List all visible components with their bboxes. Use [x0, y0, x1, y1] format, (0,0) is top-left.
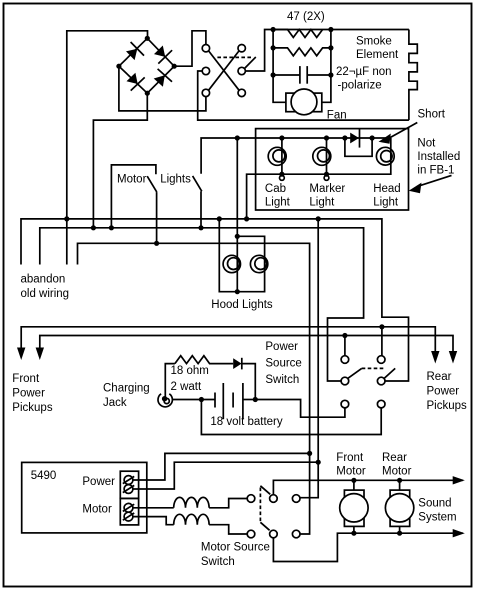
smoke unit left rail	[273, 30, 286, 103]
S3 lever bottom	[260, 522, 269, 530]
wire S1 left-middle to smoke unit bottom rail	[198, 71, 409, 120]
svg-text:Power: Power	[82, 476, 115, 488]
rear pickup arrow 2	[449, 351, 457, 364]
wire jack top to resistor	[165, 364, 175, 397]
Not-installed callout arrow	[417, 175, 452, 186]
svg-text:Light: Light	[309, 196, 335, 208]
bus1 common return (abandon stub, across, down to power switch right-middle)	[21, 219, 409, 381]
resistor R3 18 ohm	[175, 356, 233, 364]
wire 5490 motor2 to choke L2	[133, 517, 174, 525]
diode BR1-BR (points to right node)	[154, 69, 172, 87]
motor source switch S3 contacts	[247, 495, 255, 503]
node bridge right	[172, 64, 177, 69]
capacitor C1 plates	[299, 66, 301, 84]
svg-text:18 ohm: 18 ohm	[171, 365, 209, 377]
svg-text:Front: Front	[336, 452, 364, 464]
bus4 motor feed (abandon stub, across, down to 5490 junction and motor switch)	[78, 243, 310, 534]
svg-text:Light: Light	[373, 196, 399, 208]
svg-text:Power: Power	[12, 388, 45, 400]
light board box	[256, 129, 409, 210]
battery B1 plate short 1	[214, 393, 216, 408]
smoke element heater (notched edge)	[409, 30, 417, 121]
svg-text:in FB-1: in FB-1	[417, 165, 454, 177]
lamp return bus down to bus1	[247, 138, 391, 219]
svg-text:Rear: Rear	[382, 452, 407, 464]
wire S2 right-bottom to battery negative side	[201, 400, 381, 435]
wire bus1 vertical down to motor switch right-top	[300, 219, 318, 498]
capacitor C1 leads	[273, 74, 300, 76]
short bypass loop around D1	[345, 138, 372, 156]
fan M1 rotor	[291, 89, 317, 115]
terminal block power	[120, 471, 138, 498]
svg-text:Sound: Sound	[418, 498, 451, 510]
svg-text:Rear: Rear	[427, 371, 452, 383]
resistor R1 47 ohm	[273, 30, 323, 38]
wire choke L1 to motor switch left-top	[209, 499, 247, 508]
diode D1 triangle	[350, 133, 359, 144]
S2 dashed link	[362, 367, 384, 369]
5490 unit box	[22, 462, 147, 533]
diode BR1-TR (points to right node)	[154, 46, 172, 64]
wire 5490 power2 to junction	[133, 462, 318, 489]
battery B1 plate long 2	[242, 383, 244, 419]
svg-text:Motor: Motor	[336, 466, 366, 478]
svg-text:Lights: Lights	[160, 173, 191, 185]
junction dots hood lamps	[235, 234, 240, 239]
bridge rectifier BR1 diamond	[119, 38, 174, 93]
wire S1 right-middle to smoke unit top rail	[245, 30, 409, 72]
wire bridge left node to DPDT S1 lower-left contact	[119, 66, 206, 111]
Motor switch blade	[147, 176, 157, 192]
diode D3 triangle	[233, 358, 241, 369]
long wire lamp-bus to hood lamps top	[236, 138, 238, 236]
wire choke L2 to motor switch left-bottom	[209, 525, 247, 534]
node bridge bottom	[145, 91, 150, 96]
wire 5490 power1 to junction	[133, 453, 310, 480]
Motor knife switch SW-M bracket	[111, 165, 155, 228]
svg-text:Front: Front	[12, 373, 40, 385]
svg-text:Head: Head	[373, 183, 401, 195]
svg-text:Power: Power	[427, 386, 460, 398]
svg-text:Motor Source: Motor Source	[201, 541, 270, 553]
Short callout arrow	[388, 123, 417, 139]
svg-text:18 volt battery: 18 volt battery	[210, 416, 282, 428]
terminal block motor	[120, 498, 138, 525]
diode D3 bar	[241, 358, 243, 370]
front pickup arrow 2	[36, 348, 44, 361]
cab lamp DS1	[268, 138, 286, 180]
svg-text:Motor: Motor	[117, 173, 147, 185]
svg-text:System: System	[418, 512, 456, 524]
wire battery to S2 jog	[243, 399, 255, 401]
svg-text:abandon: abandon	[21, 273, 66, 285]
junction dots on buses	[64, 216, 69, 221]
battery B1 plate long 1	[222, 383, 224, 419]
pickup wire W-P2 with corners to arrows	[40, 336, 453, 352]
reversing switch S1 contacts	[202, 45, 209, 52]
head lamp DS3	[376, 147, 394, 165]
bus2 hot feed (abandon stub, across, jog down to power switch left-middle)	[40, 228, 364, 381]
svg-text:Element: Element	[356, 49, 399, 61]
junction dot power2	[316, 460, 321, 465]
svg-text:Motor: Motor	[82, 503, 112, 515]
node bridge top	[145, 36, 150, 41]
charging jack J1 body	[158, 394, 172, 407]
wire bridge bottom node down-left to bus2	[93, 93, 147, 228]
front motor M2	[340, 480, 368, 533]
junction dots motor rails	[351, 478, 356, 483]
svg-text:22¬µF non: 22¬µF non	[336, 66, 392, 78]
choke L1	[174, 497, 209, 507]
svg-text:Switch: Switch	[201, 556, 235, 568]
svg-text:Charging: Charging	[103, 382, 150, 394]
svg-text:Power: Power	[265, 341, 298, 353]
hood lamp DS4	[223, 236, 240, 291]
diode D1 bar	[359, 129, 361, 147]
wire 5490 motor1 to choke L1	[133, 507, 174, 509]
battery B1 plate short 2	[232, 393, 234, 408]
choke L2	[174, 514, 209, 524]
power source switch S2 contacts	[341, 356, 349, 364]
wire diode to battery output	[242, 364, 256, 400]
charging jack J1 ring	[164, 398, 169, 403]
rear pickup arrow 1	[431, 351, 439, 364]
svg-text:-polarize: -polarize	[338, 80, 382, 92]
S1 crossed wiring X	[209, 51, 239, 90]
wire S2 left-bottom to battery positive	[255, 400, 345, 418]
marker lamp DS2	[313, 138, 331, 180]
svg-text:Pickups: Pickups	[12, 402, 53, 414]
diode BR1-BL (points to bottom node)	[127, 73, 145, 91]
svg-text:Marker: Marker	[309, 183, 345, 195]
smoke unit right rail	[322, 30, 331, 103]
junction dot battery left	[199, 397, 204, 402]
junction dot battery right	[253, 397, 258, 402]
node bridge left	[116, 64, 121, 69]
wire pickup1 to power switch right-top	[381, 327, 383, 356]
hood lights frame wire	[219, 219, 264, 292]
svg-text:Not: Not	[417, 138, 436, 150]
svg-text:Smoke: Smoke	[356, 36, 392, 48]
svg-text:Source: Source	[265, 358, 301, 370]
svg-text:Short: Short	[418, 109, 446, 121]
S1 lever	[245, 57, 256, 68]
Lights switch blade	[193, 176, 202, 191]
svg-text:Jack: Jack	[103, 397, 127, 409]
S2 lever left	[348, 368, 362, 378]
svg-text:Pickups: Pickups	[427, 400, 468, 412]
fan M1 frame	[286, 93, 322, 112]
wire pickup2 to power switch left-top	[344, 336, 346, 356]
hood lamp DS5	[250, 255, 267, 272]
pickup wire W-P1 with corners to arrows	[21, 327, 435, 352]
wire S3 middle-bottom to motors bottom rail	[273, 533, 463, 561]
junction dot power1	[307, 451, 312, 456]
svg-text:47 (2X): 47 (2X)	[287, 11, 325, 23]
Motor switch wire down to bus4	[156, 192, 158, 243]
junction dots lamp bus	[235, 135, 240, 140]
svg-text:Switch: Switch	[265, 374, 299, 386]
sound arrow bottom	[453, 529, 465, 537]
resistor R2 47 ohm	[273, 48, 331, 56]
S2 lever right	[384, 368, 395, 378]
svg-text:Light: Light	[265, 196, 291, 208]
svg-text:Hood Lights: Hood Lights	[211, 299, 273, 311]
wire S3 middle-top to motors top rail	[273, 480, 463, 494]
svg-text:old wiring: old wiring	[21, 288, 70, 300]
svg-text:Fan: Fan	[327, 110, 347, 122]
svg-text:2 watt: 2 watt	[171, 381, 202, 393]
wire from top-left corner feed to bridge top node and down to bus1	[67, 31, 148, 265]
rear motor M3	[385, 480, 413, 533]
svg-text:Cab: Cab	[265, 183, 286, 195]
terminal screws	[123, 476, 134, 521]
front pickup arrow 1	[17, 348, 25, 361]
svg-text:Motor: Motor	[382, 466, 412, 478]
charging jack J1 tip dot	[162, 396, 167, 401]
S3 lever top	[260, 486, 270, 495]
svg-text:Installed: Installed	[417, 151, 460, 163]
diode BR1-TL (points to top node)	[126, 42, 144, 60]
wire jack to battery wire	[172, 399, 215, 401]
wire bridge right node to DPDT S1 top-left contact	[174, 31, 206, 66]
lamp supply bus with corner down to Lights switch	[201, 138, 391, 174]
S1 actuator dashed link	[217, 56, 252, 58]
S3 dashed link	[259, 488, 261, 522]
junction dots smoke unit rails	[271, 27, 276, 32]
Lights switch wire down to bus2	[200, 191, 202, 228]
svg-text:5490: 5490	[31, 470, 57, 482]
sound arrow top	[453, 476, 465, 484]
